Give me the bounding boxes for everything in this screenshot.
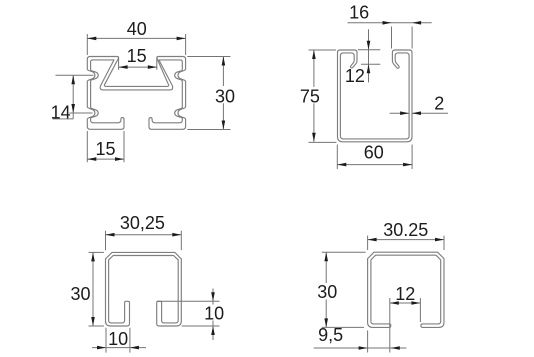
svg-text:30,25: 30,25 — [120, 213, 165, 233]
svg-text:12: 12 — [395, 284, 415, 304]
svg-text:10: 10 — [108, 329, 128, 349]
svg-text:30: 30 — [215, 86, 235, 106]
svg-text:2: 2 — [434, 94, 444, 114]
svg-text:10: 10 — [204, 304, 224, 324]
svg-text:14: 14 — [51, 103, 71, 123]
svg-text:75: 75 — [300, 86, 320, 106]
svg-text:9,5: 9,5 — [318, 325, 343, 345]
svg-text:15: 15 — [127, 46, 147, 66]
svg-text:15: 15 — [95, 139, 115, 159]
svg-text:60: 60 — [364, 143, 384, 163]
svg-text:16: 16 — [349, 2, 369, 22]
svg-text:30: 30 — [317, 282, 337, 302]
svg-text:30: 30 — [70, 284, 90, 304]
svg-text:12: 12 — [345, 66, 365, 86]
svg-text:40: 40 — [127, 19, 147, 39]
svg-text:30.25: 30.25 — [383, 220, 428, 240]
